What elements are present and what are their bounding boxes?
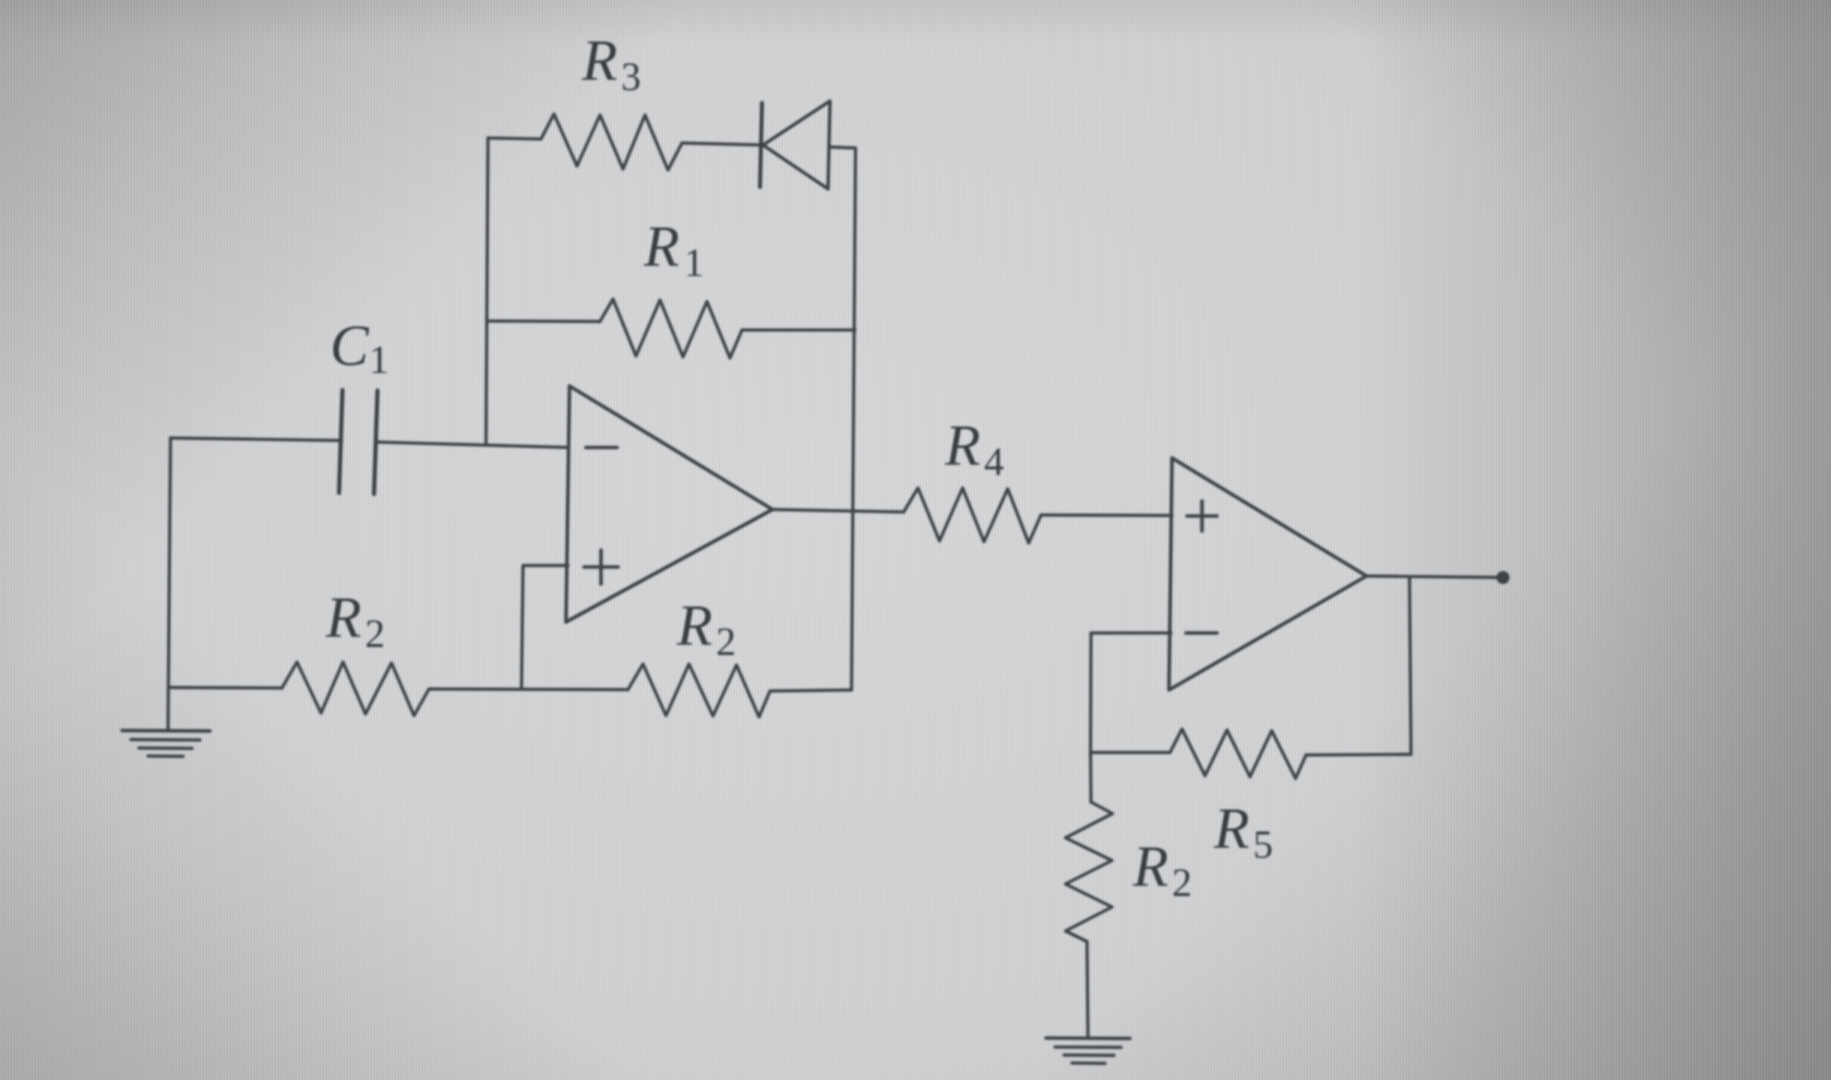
svg-text:R: R	[643, 214, 679, 279]
svg-text:2: 2	[716, 619, 736, 664]
svg-text:4: 4	[984, 439, 1004, 484]
svg-text:R: R	[1213, 796, 1249, 861]
svg-text:R: R	[676, 593, 712, 658]
svg-text:1: 1	[684, 240, 704, 285]
svg-text:R: R	[1132, 834, 1168, 899]
svg-text:5: 5	[1253, 822, 1273, 867]
svg-text:R: R	[325, 585, 361, 650]
svg-text:R: R	[944, 413, 980, 478]
svg-text:2: 2	[365, 611, 385, 656]
svg-text:R: R	[581, 28, 617, 93]
svg-text:C: C	[330, 313, 370, 378]
svg-text:1: 1	[369, 337, 389, 382]
svg-text:3: 3	[621, 54, 641, 99]
svg-text:2: 2	[1172, 860, 1192, 905]
